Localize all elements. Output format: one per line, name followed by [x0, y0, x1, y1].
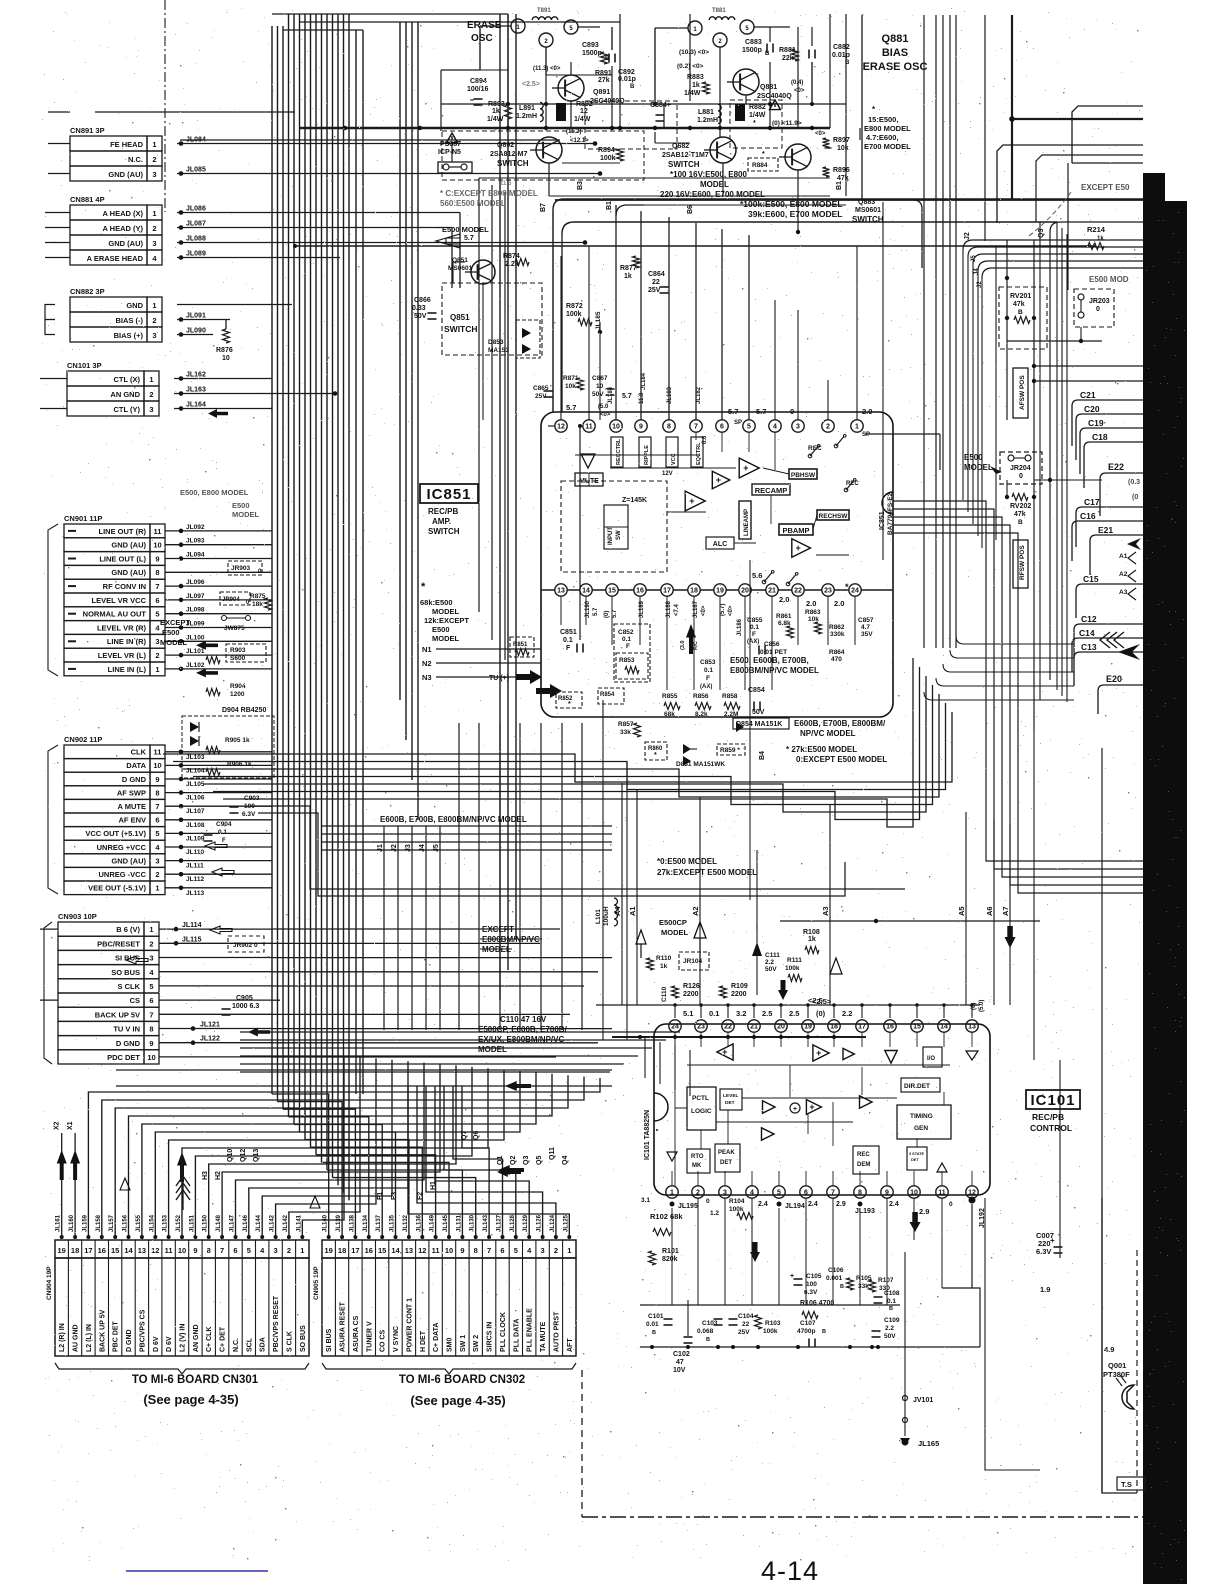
svg-text:JL127: JL127	[497, 1214, 503, 1232]
svg-text:2.5: 2.5	[789, 1009, 799, 1018]
svg-text:Q6: Q6	[473, 1131, 480, 1140]
svg-text:C904: C904	[216, 821, 232, 828]
svg-text:+: +	[816, 1048, 821, 1058]
svg-text:1200: 1200	[230, 691, 245, 698]
svg-text:R854: R854	[600, 692, 615, 698]
svg-text:5.7: 5.7	[566, 403, 576, 412]
svg-text:*: *	[568, 701, 571, 708]
svg-text:7: 7	[487, 1246, 491, 1255]
svg-text:50V: 50V	[752, 709, 765, 716]
svg-text:6: 6	[720, 424, 724, 431]
svg-text:14: 14	[582, 588, 590, 595]
svg-text:JL093: JL093	[186, 538, 205, 545]
svg-text:BIAS (+): BIAS (+)	[114, 331, 144, 340]
svg-text:R101: R101	[662, 1248, 679, 1255]
svg-text:Z=145K: Z=145K	[622, 497, 647, 504]
svg-text:FE HEAD: FE HEAD	[110, 140, 144, 149]
svg-text:A3: A3	[821, 906, 830, 916]
svg-text:JR903: JR903	[231, 565, 251, 572]
svg-text:N1: N1	[422, 645, 432, 654]
svg-text:AF SWP: AF SWP	[117, 788, 146, 797]
svg-text:A6: A6	[985, 906, 994, 916]
svg-text:E500: E500	[432, 625, 450, 634]
svg-text:R862: R862	[829, 624, 845, 631]
svg-text:NP/VC MODEL: NP/VC MODEL	[800, 729, 856, 738]
svg-text:12: 12	[557, 424, 565, 431]
svg-text:3: 3	[149, 405, 153, 414]
svg-text:18: 18	[338, 1246, 346, 1255]
svg-text:8: 8	[474, 1246, 478, 1255]
svg-text:JL193: JL193	[855, 1208, 875, 1215]
svg-text:4: 4	[750, 1190, 754, 1197]
svg-text:5.7: 5.7	[612, 609, 618, 618]
svg-text:R905 1k: R905 1k	[225, 737, 250, 744]
svg-text:JL112: JL112	[186, 876, 204, 883]
svg-text:3: 3	[796, 424, 800, 431]
svg-text:LINE IN (R): LINE IN (R)	[107, 637, 147, 646]
svg-text:C18: C18	[1092, 432, 1108, 442]
svg-text:12: 12	[580, 108, 588, 115]
svg-text:17: 17	[663, 588, 671, 595]
svg-text:(See page 4-35): (See page 4-35)	[410, 1393, 505, 1408]
svg-text:JL138: JL138	[349, 1214, 355, 1232]
svg-text:10: 10	[445, 1246, 453, 1255]
svg-text:E800 MODEL: E800 MODEL	[864, 124, 911, 133]
svg-text:13: 13	[405, 1246, 413, 1255]
svg-text:25V: 25V	[738, 1329, 750, 1336]
svg-text:0.01 PET: 0.01 PET	[760, 649, 787, 656]
svg-text:CONTROL: CONTROL	[1030, 1123, 1072, 1133]
svg-text:(AX): (AX)	[700, 684, 712, 690]
svg-text:JL145: JL145	[443, 1214, 449, 1232]
svg-text:2.2: 2.2	[842, 1009, 852, 1018]
svg-text:0: 0	[1019, 473, 1023, 480]
svg-text:R882: R882	[749, 104, 766, 111]
svg-text:2200: 2200	[683, 991, 699, 998]
svg-text:18: 18	[690, 588, 698, 595]
svg-text:0.068: 0.068	[697, 1328, 714, 1335]
svg-text:JL152: JL152	[176, 1214, 182, 1232]
svg-text:20: 20	[777, 1024, 785, 1031]
svg-text:TA MUTE: TA MUTE	[540, 1321, 547, 1352]
svg-text:B: B	[840, 1284, 844, 1290]
svg-text:C14: C14	[1079, 628, 1095, 638]
svg-text:7: 7	[220, 1246, 224, 1255]
svg-text:NORMAL AU OUT: NORMAL AU OUT	[83, 610, 147, 619]
svg-text:J2: J2	[391, 844, 398, 852]
svg-text:2: 2	[696, 1190, 700, 1197]
svg-text:RECAMP: RECAMP	[755, 486, 788, 495]
svg-text:470: 470	[831, 656, 842, 663]
svg-text:2.9: 2.9	[836, 1201, 846, 1208]
svg-text:12k:EXCEPT: 12k:EXCEPT	[424, 616, 469, 625]
svg-text:JL125: JL125	[563, 1214, 569, 1232]
svg-text:15: 15	[378, 1246, 386, 1255]
svg-text:35V: 35V	[861, 631, 873, 638]
svg-text:F: F	[626, 643, 630, 650]
svg-text:JL090: JL090	[186, 328, 206, 335]
svg-text:3: 3	[152, 239, 156, 248]
svg-text:0.1: 0.1	[622, 636, 631, 643]
svg-text:LINEAMP: LINEAMP	[744, 509, 750, 536]
svg-text:0.33: 0.33	[412, 305, 426, 312]
svg-text:3 STATE: 3 STATE	[909, 1152, 925, 1156]
svg-text:PBC/VPS CS: PBC/VPS CS	[139, 1309, 146, 1352]
svg-text:MA153: MA153	[488, 347, 509, 354]
svg-text:N3: N3	[422, 673, 432, 682]
svg-text:CLK: CLK	[131, 748, 147, 757]
svg-text:(5.0): (5.0)	[979, 1000, 985, 1012]
svg-text:C867: C867	[592, 375, 608, 382]
svg-text:C855: C855	[747, 617, 763, 624]
svg-text:16: 16	[365, 1246, 373, 1255]
svg-text:C15: C15	[1083, 574, 1099, 584]
svg-text:JL155: JL155	[136, 1214, 142, 1232]
svg-text:L2 (V) IN: L2 (V) IN	[180, 1324, 187, 1352]
svg-text:JL114: JL114	[182, 922, 202, 929]
svg-text:DIR.DET: DIR.DET	[904, 1083, 930, 1090]
svg-text:2: 2	[155, 870, 159, 879]
svg-text:L2 (R) IN: L2 (R) IN	[59, 1323, 66, 1352]
svg-text:*: *	[421, 581, 426, 593]
svg-text:47k: 47k	[1013, 301, 1025, 308]
svg-text:SW 2: SW 2	[473, 1335, 480, 1352]
svg-text:9: 9	[639, 424, 643, 431]
svg-text:6: 6	[155, 816, 159, 825]
svg-text:R108: R108	[803, 929, 820, 936]
svg-text:<2.5>: <2.5>	[522, 81, 540, 88]
svg-text:16: 16	[886, 1024, 894, 1031]
svg-text:JL140: JL140	[323, 1214, 329, 1232]
svg-text:VCC OUT (+5.1V): VCC OUT (+5.1V)	[85, 829, 146, 838]
svg-text:CN903 10P: CN903 10P	[58, 912, 97, 921]
svg-text:<7.4: <7.4	[674, 603, 680, 616]
svg-text:2.2k: 2.2k	[505, 261, 519, 268]
svg-text:R103: R103	[765, 1320, 781, 1327]
svg-text:JL136: JL136	[416, 1214, 422, 1232]
svg-text:JL141: JL141	[296, 1214, 302, 1232]
svg-text:JL107: JL107	[186, 808, 205, 815]
svg-text:10: 10	[147, 1053, 155, 1062]
svg-text:3: 3	[155, 856, 159, 865]
svg-text:SCL: SCL	[246, 1337, 253, 1352]
svg-text:23: 23	[824, 588, 832, 595]
svg-text:R858: R858	[722, 693, 738, 700]
svg-text:0.1: 0.1	[887, 1298, 896, 1305]
svg-text:JL131: JL131	[456, 1214, 462, 1232]
svg-text:H DET: H DET	[420, 1330, 427, 1352]
svg-text:2SA812-M7: 2SA812-M7	[490, 151, 527, 158]
svg-text:50V: 50V	[765, 966, 777, 973]
svg-text:JL101: JL101	[186, 648, 205, 655]
svg-text:B: B	[630, 84, 635, 90]
svg-text:AU GND: AU GND	[73, 1324, 80, 1352]
svg-text:LINE IN (L): LINE IN (L)	[108, 665, 147, 674]
svg-text:B1: B1	[606, 201, 613, 210]
svg-text:1.2: 1.2	[710, 1210, 719, 1217]
svg-text:R106 4700: R106 4700	[800, 1300, 834, 1307]
svg-text:2.0: 2.0	[806, 599, 816, 608]
svg-text:5: 5	[747, 424, 751, 431]
svg-text:14: 14	[940, 1024, 948, 1031]
svg-text:4.7:E600,: 4.7:E600,	[866, 133, 899, 142]
svg-text:6: 6	[804, 1190, 808, 1197]
svg-text:0.1: 0.1	[563, 637, 573, 644]
svg-text:10: 10	[612, 424, 620, 431]
svg-text:2: 2	[149, 390, 153, 399]
svg-text:Q10: Q10	[227, 1149, 234, 1162]
svg-text:R883: R883	[687, 74, 704, 81]
svg-text:C17: C17	[1084, 497, 1100, 507]
svg-text:E500: E500	[964, 453, 983, 462]
svg-text:SWITCH: SWITCH	[444, 324, 478, 334]
svg-text:100k: 100k	[600, 155, 616, 162]
svg-text:L2 (L) IN: L2 (L) IN	[86, 1324, 93, 1352]
svg-text:JV101: JV101	[913, 1397, 933, 1404]
svg-text:JL161: JL161	[56, 1214, 62, 1232]
svg-text:A2: A2	[691, 906, 700, 916]
svg-text:0: 0	[949, 1201, 953, 1208]
svg-text:C104: C104	[738, 1313, 754, 1320]
svg-text:5: 5	[149, 982, 153, 991]
svg-text:JL100: JL100	[186, 634, 205, 641]
svg-text:5: 5	[247, 1246, 251, 1255]
svg-text:CS: CS	[130, 996, 140, 1005]
svg-text:V SYNC: V SYNC	[393, 1326, 400, 1352]
svg-text:MS0601: MS0601	[448, 265, 473, 272]
svg-text:T891: T891	[537, 8, 551, 14]
svg-text:R104: R104	[729, 1198, 745, 1205]
svg-text:CN881 4P: CN881 4P	[70, 195, 105, 204]
svg-text:D GND: D GND	[116, 1039, 141, 1048]
svg-text:RFSW POS: RFSW POS	[1019, 545, 1026, 580]
svg-text:(0): (0)	[604, 611, 610, 618]
svg-text:JL121: JL121	[200, 1022, 220, 1029]
svg-text:<0>: <0>	[600, 412, 611, 418]
svg-text:5.7: 5.7	[756, 407, 766, 416]
svg-text:JL183: JL183	[667, 386, 673, 404]
svg-text:4: 4	[773, 424, 777, 431]
svg-text:J5: J5	[433, 844, 440, 852]
svg-text:2: 2	[149, 939, 153, 948]
svg-text:+: +	[1050, 1236, 1055, 1245]
svg-text:2.2: 2.2	[765, 959, 774, 966]
svg-text:A5: A5	[957, 906, 966, 916]
svg-text:21: 21	[750, 1024, 758, 1031]
svg-text:JL128: JL128	[510, 1214, 516, 1232]
svg-text:C110 47 16V: C110 47 16V	[500, 1015, 547, 1024]
svg-text:22: 22	[724, 1024, 732, 1031]
svg-text:MODEL: MODEL	[432, 634, 460, 643]
svg-text:11: 11	[938, 1190, 946, 1197]
svg-text:4.7: 4.7	[861, 624, 870, 631]
svg-text:15: 15	[111, 1246, 119, 1255]
svg-text:7: 7	[831, 1190, 835, 1197]
svg-text:SM0: SM0	[447, 1338, 454, 1353]
svg-text:C12: C12	[1081, 614, 1097, 624]
svg-text:T.S: T.S	[1121, 1480, 1132, 1489]
svg-text:11.8: 11.8	[639, 392, 645, 404]
svg-text:B: B	[1018, 519, 1023, 526]
svg-text:39k:E600, E700 MODEL: 39k:E600, E700 MODEL	[748, 209, 843, 219]
svg-text:REC/PB: REC/PB	[1032, 1112, 1064, 1122]
svg-text:220 16V:E600, E700 MODEL: 220 16V:E600, E700 MODEL	[660, 190, 765, 199]
svg-text:TU V IN: TU V IN	[113, 1025, 140, 1034]
svg-text:15: 15	[608, 588, 616, 595]
svg-text:UNREG +VCC: UNREG +VCC	[97, 843, 147, 852]
svg-text:C893: C893	[582, 42, 599, 49]
svg-text:JL160: JL160	[69, 1214, 75, 1232]
svg-text:AN GND: AN GND	[110, 390, 140, 399]
svg-text:C852: C852	[618, 629, 634, 636]
svg-text:5.6: 5.6	[752, 571, 762, 580]
svg-text:3: 3	[541, 1246, 545, 1255]
svg-text:100: 100	[806, 1281, 817, 1288]
svg-text:R857: R857	[618, 721, 634, 728]
svg-text:F1: F1	[377, 1192, 384, 1200]
svg-text:*0:E500 MODEL: *0:E500 MODEL	[657, 857, 717, 866]
svg-text:2SAB12-T1M7: 2SAB12-T1M7	[662, 152, 709, 159]
svg-text:CN904 19P: CN904 19P	[46, 1266, 53, 1300]
svg-text:JL195: JL195	[678, 1203, 698, 1210]
svg-text:1: 1	[152, 140, 156, 149]
svg-text:JL146: JL146	[243, 1214, 249, 1232]
svg-text:6.3V: 6.3V	[1036, 1247, 1051, 1256]
svg-text:LOGIC: LOGIC	[691, 1108, 712, 1115]
svg-text:CN901 11P: CN901 11P	[64, 514, 102, 523]
svg-text:R852: R852	[558, 696, 573, 702]
svg-text:EXCEPT E50: EXCEPT E50	[1081, 183, 1130, 192]
svg-text:R894: R894	[598, 147, 615, 154]
svg-text:PLL CLOCK: PLL CLOCK	[500, 1312, 507, 1352]
svg-text:2.2M: 2.2M	[724, 711, 738, 718]
svg-text:MK: MK	[692, 1163, 702, 1169]
svg-text:REC/PB: REC/PB	[428, 507, 458, 516]
svg-text:C20: C20	[1084, 404, 1100, 414]
svg-text:2.4: 2.4	[889, 1201, 899, 1208]
svg-text:1/4W: 1/4W	[487, 116, 504, 123]
svg-text:R859 *: R859 *	[720, 747, 740, 754]
svg-text:JL162: JL162	[186, 372, 206, 379]
svg-text:(0.2) <0>: (0.2) <0>	[677, 63, 704, 70]
svg-text:0: 0	[1096, 306, 1100, 313]
svg-text:100k: 100k	[785, 965, 800, 972]
svg-text:1k: 1k	[660, 963, 668, 970]
svg-text:JL137: JL137	[376, 1214, 382, 1232]
svg-text:JL092: JL092	[186, 524, 205, 531]
svg-text:47: 47	[676, 1359, 684, 1366]
svg-text:4700p: 4700p	[797, 1328, 815, 1335]
svg-text:JR203: JR203	[1089, 298, 1110, 305]
svg-text:18: 18	[830, 1024, 838, 1031]
svg-text:L881: L881	[698, 109, 714, 116]
svg-text:J1: J1	[377, 844, 384, 852]
svg-text:A1: A1	[628, 906, 637, 916]
svg-text:8: 8	[155, 788, 159, 797]
svg-text:SO BUS: SO BUS	[111, 968, 140, 977]
svg-text:(0.4): (0.4)	[791, 80, 803, 86]
svg-text:5.7: 5.7	[464, 235, 474, 242]
svg-text:5.7: 5.7	[593, 607, 599, 616]
svg-text:7: 7	[694, 424, 698, 431]
svg-text:BIAS: BIAS	[882, 47, 908, 59]
svg-text:JL089: JL089	[186, 251, 206, 258]
svg-text:+: +	[716, 475, 721, 485]
svg-text:3: 3	[274, 1246, 278, 1255]
svg-text:C+ DET: C+ DET	[220, 1326, 227, 1352]
svg-text:JL164: JL164	[186, 402, 206, 409]
svg-text:8.2k: 8.2k	[695, 711, 708, 718]
svg-text:1/4W: 1/4W	[749, 112, 766, 119]
svg-text:SWITCH: SWITCH	[668, 160, 700, 169]
svg-text:1/4W: 1/4W	[574, 116, 591, 123]
svg-text:5: 5	[777, 1190, 781, 1197]
svg-text:DEM: DEM	[857, 1162, 870, 1168]
svg-text:CTL (X): CTL (X)	[113, 375, 140, 384]
svg-text:R853: R853	[619, 657, 635, 664]
svg-text:JL087: JL087	[186, 221, 206, 228]
svg-text:JL115: JL115	[182, 936, 202, 943]
svg-text:JW875: JW875	[224, 625, 245, 632]
svg-text:PCTL: PCTL	[692, 1095, 709, 1102]
svg-text:H2: H2	[215, 1171, 222, 1180]
svg-text:SDA: SDA	[260, 1337, 267, 1352]
svg-text:15: 15	[913, 1024, 921, 1031]
svg-text:0.01p: 0.01p	[618, 76, 636, 83]
svg-text:JL159: JL159	[82, 1214, 88, 1232]
svg-text:R906 1k: R906 1k	[227, 761, 252, 768]
svg-text:Q12: Q12	[240, 1149, 247, 1162]
svg-text:LINE OUT (R): LINE OUT (R)	[99, 527, 147, 536]
svg-text:PLL DATA: PLL DATA	[513, 1319, 520, 1352]
svg-text:100k: 100k	[763, 1328, 778, 1335]
svg-text:D GND: D GND	[122, 775, 147, 784]
svg-text:JL122: JL122	[200, 1036, 220, 1043]
svg-text:C854: C854	[748, 687, 765, 694]
svg-text:E500CP, E600B, E700B/: E500CP, E600B, E700B/	[478, 1025, 568, 1034]
svg-text:SIRCS IN: SIRCS IN	[487, 1322, 494, 1352]
svg-text:JR904: JR904	[222, 597, 240, 603]
svg-text:11: 11	[432, 1246, 440, 1255]
svg-text:*100 16V:E500, E800: *100 16V:E500, E800	[670, 170, 748, 179]
svg-text:<0>: <0>	[815, 131, 826, 137]
svg-text:R863: R863	[805, 609, 821, 616]
svg-text:EQCTRL: EQCTRL	[696, 442, 702, 465]
svg-text:VEE OUT (-5.1V): VEE OUT (-5.1V)	[88, 884, 146, 893]
svg-text:C866: C866	[414, 297, 431, 304]
svg-text:Q13: Q13	[253, 1149, 260, 1162]
svg-text:2: 2	[554, 1246, 558, 1255]
svg-text:+: +	[689, 496, 694, 506]
svg-text:F2: F2	[417, 1192, 424, 1200]
svg-text:A ERASE HEAD: A ERASE HEAD	[87, 254, 144, 263]
svg-text:<2.5: <2.5	[808, 996, 823, 1005]
svg-text:JL144: JL144	[256, 1214, 262, 1232]
svg-text:11: 11	[165, 1246, 173, 1255]
svg-text:JL158: JL158	[96, 1214, 102, 1232]
svg-text:R874: R874	[503, 253, 520, 260]
svg-text:*: *	[753, 120, 756, 127]
svg-text:JL098: JL098	[186, 607, 205, 614]
svg-text:JL194: JL194	[785, 1203, 805, 1210]
svg-text:2.4: 2.4	[758, 1201, 768, 1208]
svg-text:R856: R856	[693, 693, 709, 700]
svg-text:<0>: <0>	[794, 88, 805, 94]
svg-text:0.1: 0.1	[750, 624, 759, 631]
svg-text:PLL ENABLE: PLL ENABLE	[527, 1308, 534, 1352]
svg-text:3.2: 3.2	[736, 1009, 746, 1018]
svg-text:ICP-N5: ICP-N5	[438, 149, 461, 156]
